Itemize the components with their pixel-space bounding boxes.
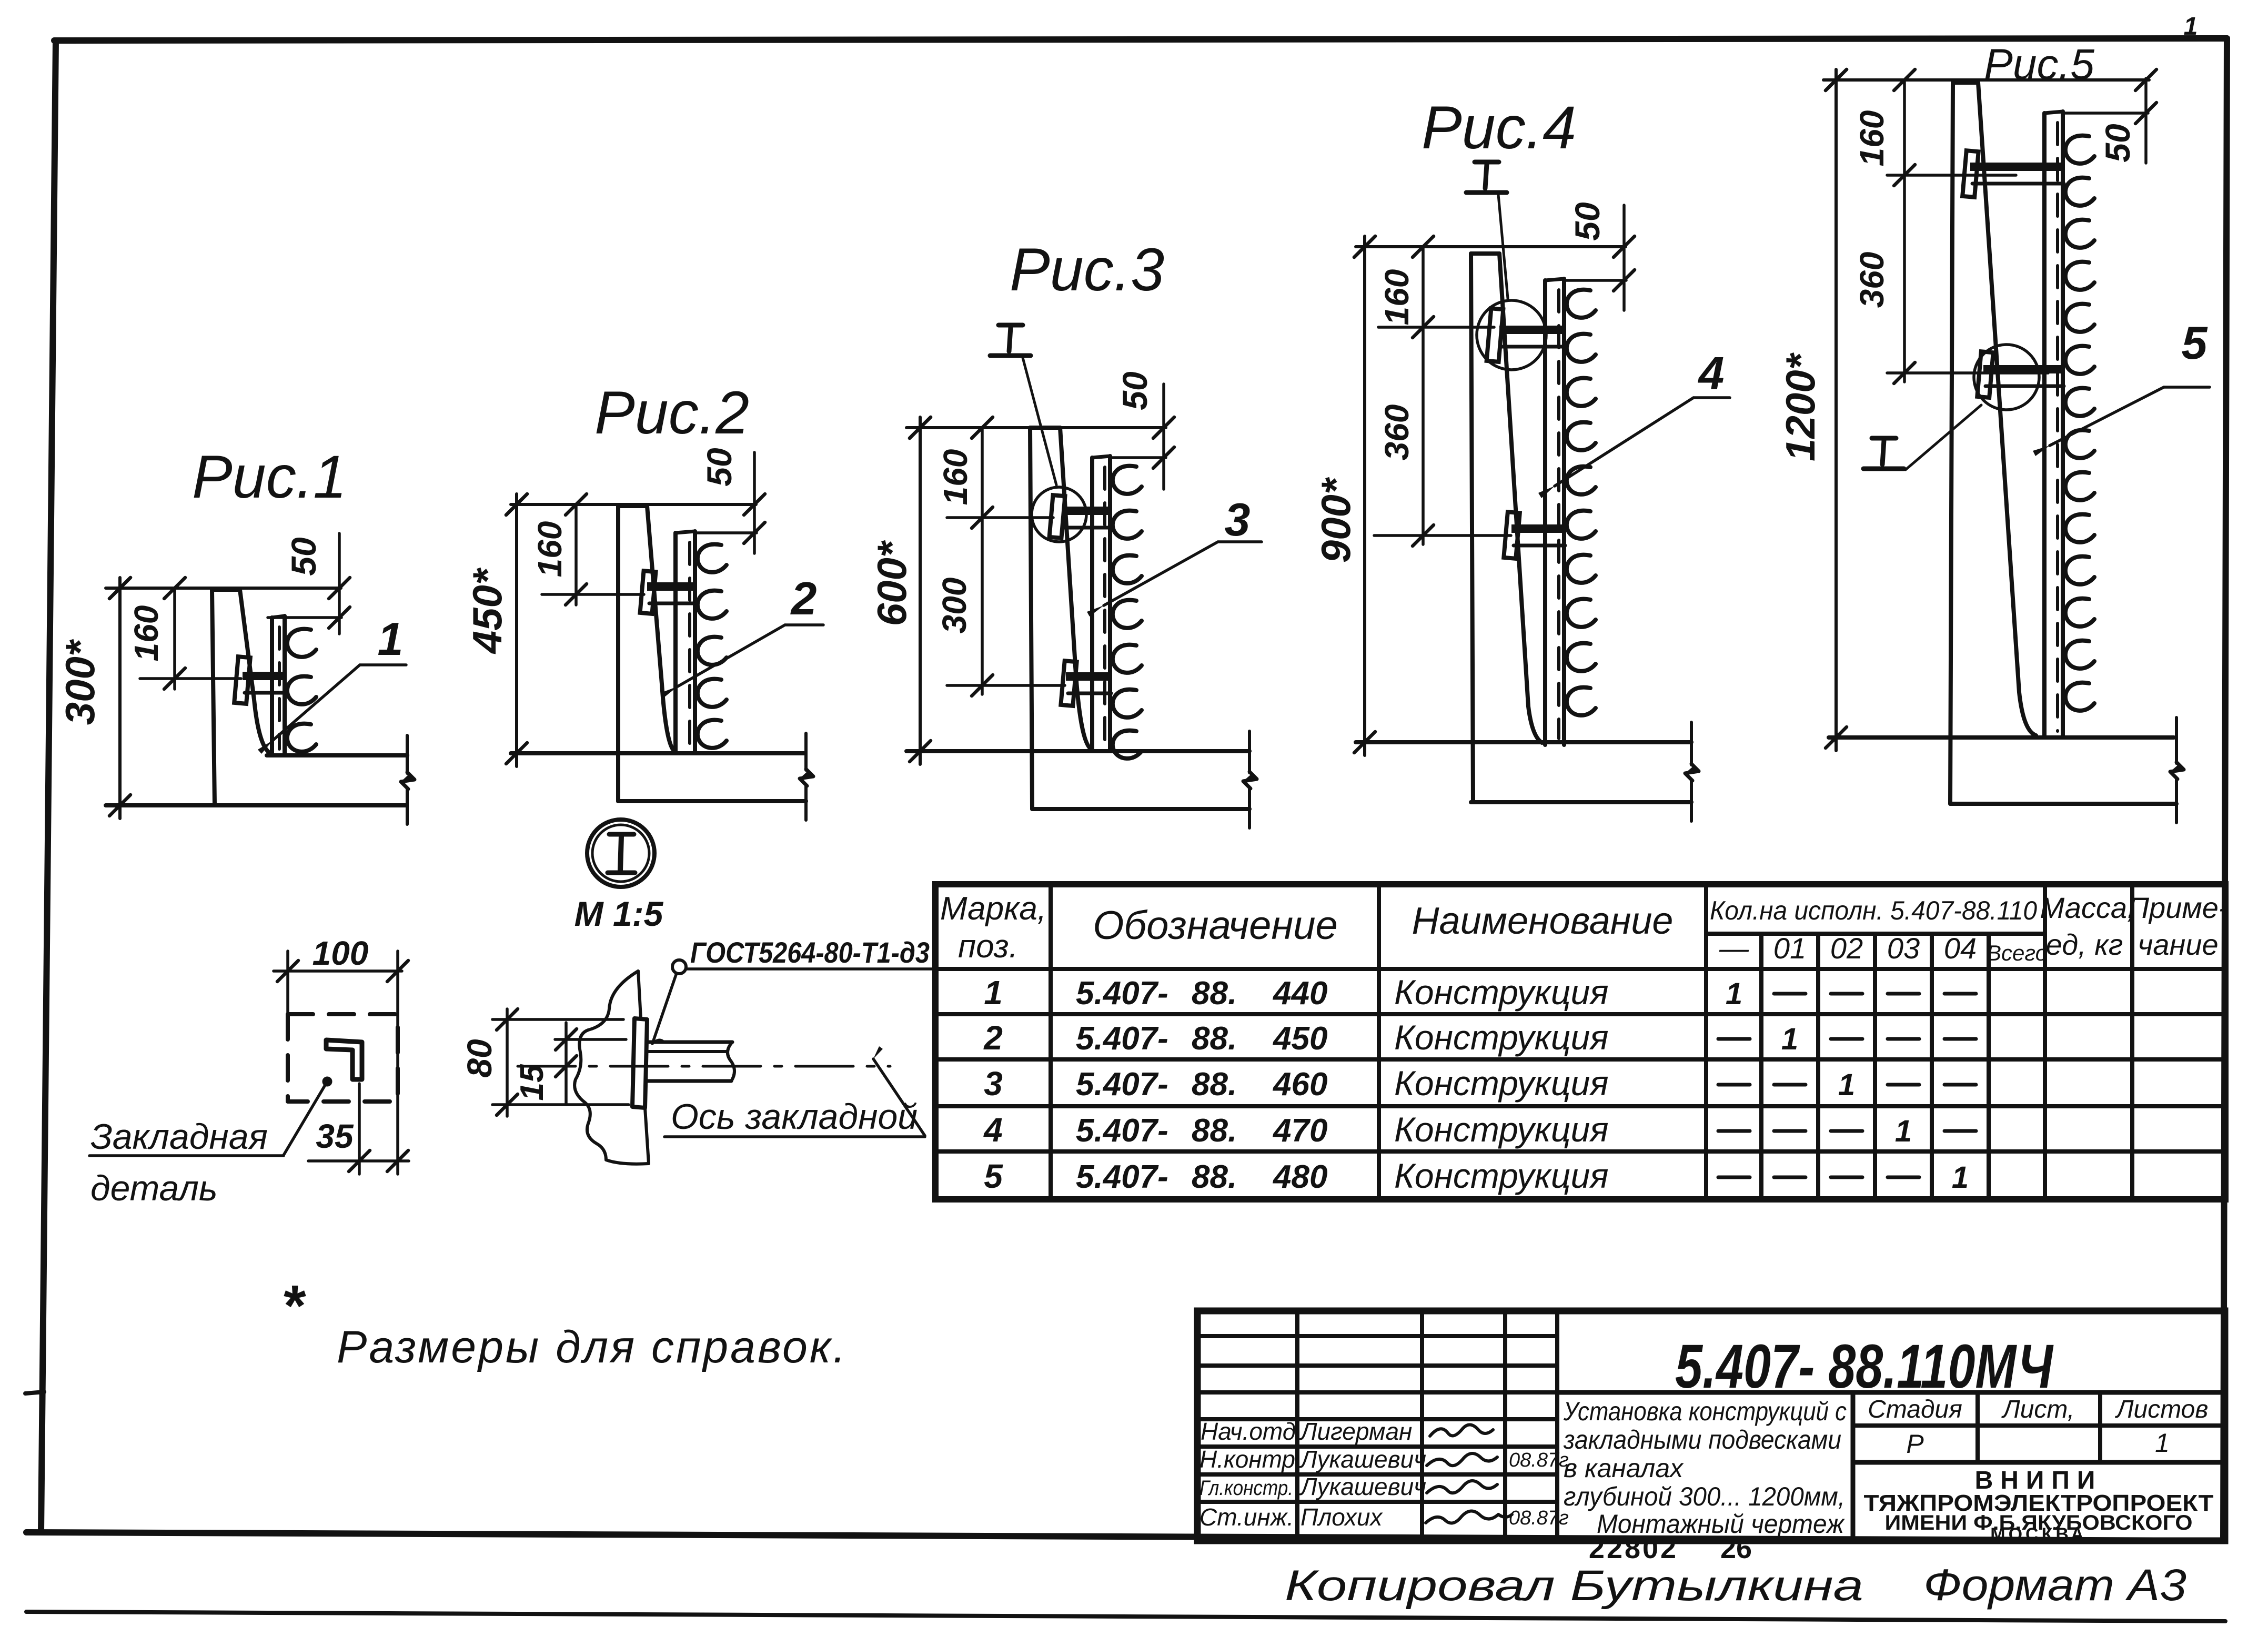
svg-text:04: 04 xyxy=(1944,932,1977,965)
svg-text:440: 440 xyxy=(1272,975,1327,1012)
dim text 15 xyxy=(514,1064,550,1100)
fig3 break mark xyxy=(1243,731,1257,828)
fig4 channel floor line xyxy=(1356,740,1691,744)
fig2 floor slab bottom line xyxy=(618,799,806,803)
fig5 position number 5 xyxy=(2182,317,2208,369)
axis centerline Ось закладной xyxy=(518,1046,925,1136)
fig3 embedded bracket 1 xyxy=(1050,495,1112,538)
fig3 floor slab bottom line xyxy=(1032,807,1249,811)
svg-text:5.407-: 5.407- xyxy=(1076,1159,1168,1195)
reference note asterisk xyxy=(281,1274,307,1338)
svg-text:300: 300 xyxy=(935,578,973,634)
fig4 section mark leader xyxy=(1498,195,1508,298)
reference note Размеры для справок. xyxy=(337,1322,848,1372)
stage values xyxy=(1906,1428,2170,1459)
title block roles xyxy=(1199,1418,1302,1531)
svg-text:88.: 88. xyxy=(1192,1066,1237,1103)
dim text 35 xyxy=(316,1117,354,1155)
svg-text:5.407-: 5.407- xyxy=(1076,1113,1168,1149)
svg-text:5.407- 88.110МЧ: 5.407- 88.110МЧ xyxy=(1675,1332,2054,1401)
svg-text:5.407-: 5.407- xyxy=(1076,975,1168,1012)
svg-text:—: — xyxy=(1719,932,1749,965)
svg-text:Всего: Всего xyxy=(1987,941,2048,965)
svg-text:50: 50 xyxy=(700,448,739,487)
fig1 dim text 160 xyxy=(127,605,165,662)
fig1 floor slab bottom line xyxy=(106,803,406,807)
svg-text:Нач.отд: Нач.отд xyxy=(1201,1418,1296,1445)
svg-text:08.87г: 08.87г xyxy=(1509,1449,1569,1471)
svg-text:1: 1 xyxy=(1781,1022,1798,1056)
svg-text:Рис.1: Рис.1 xyxy=(192,443,347,511)
fig5 embedded bracket 1 xyxy=(1962,150,2065,197)
leader to angle xyxy=(89,1078,331,1156)
svg-text:1: 1 xyxy=(2155,1428,2170,1458)
svg-text:15: 15 xyxy=(514,1064,550,1100)
svg-text:Н.контр.: Н.контр. xyxy=(1199,1446,1302,1473)
svg-text:1200*: 1200* xyxy=(1777,352,1823,461)
fig5 break mark xyxy=(2170,718,2184,823)
svg-text:ГОСТ5264-80-Т1-д3: ГОСТ5264-80-Т1-д3 xyxy=(690,936,930,969)
svg-text:88.: 88. xyxy=(1192,975,1237,1012)
fig1 cable hooks xyxy=(287,629,316,752)
svg-text:Установка конструкций с: Установка конструкций с xyxy=(1563,1397,1847,1426)
svg-text:88.: 88. xyxy=(1192,1159,1237,1195)
table header Масса ед кг xyxy=(2040,891,2135,961)
fig1 overall depth dimension line xyxy=(109,578,130,819)
svg-text:50: 50 xyxy=(1115,371,1154,410)
svg-text:3: 3 xyxy=(984,1065,1003,1103)
table header Кол. на исполн. xyxy=(1710,896,2037,925)
svg-text:1: 1 xyxy=(1895,1114,1912,1148)
svg-text:МОСКВА: МОСКВА xyxy=(1990,1524,2087,1544)
fig4 channel wall xyxy=(1471,254,1542,802)
svg-text:Масса,: Масса, xyxy=(2040,891,2135,924)
fig4 embedded bracket 2 xyxy=(1504,512,1566,559)
weld designation ГОСТ5264-80-Т1-д3 xyxy=(652,936,935,1044)
svg-text:5.407-: 5.407- xyxy=(1076,1020,1168,1057)
fig1 position number 1 xyxy=(378,613,404,665)
svg-text:5: 5 xyxy=(2182,317,2208,369)
svg-text:5.407-: 5.407- xyxy=(1076,1066,1168,1103)
table row 1 Конструкция 5.407-88.440 xyxy=(984,973,1976,1012)
svg-text:Лист,: Лист, xyxy=(2001,1396,2074,1423)
fig4 dim text 360 xyxy=(1378,405,1416,461)
svg-text:Марка,: Марка, xyxy=(940,891,1046,927)
svg-text:4: 4 xyxy=(983,1111,1003,1149)
table header Наименование xyxy=(1412,900,1674,942)
svg-text:360: 360 xyxy=(1378,405,1416,461)
svg-text:Конструкция: Конструкция xyxy=(1394,1064,1609,1103)
dim line 35 xyxy=(308,1084,409,1174)
table header Обозначение xyxy=(1093,903,1338,948)
fig4 dim text 50 xyxy=(1568,202,1607,241)
fig4 section mark I xyxy=(1466,162,1507,193)
fig3 dim text 50 xyxy=(1115,371,1154,410)
fig3 section mark leader xyxy=(1023,358,1056,485)
svg-text:Ст.инж.: Ст.инж. xyxy=(1199,1503,1294,1531)
svg-text:закладными подвесками: закладными подвесками xyxy=(1563,1425,1841,1454)
svg-text:160: 160 xyxy=(936,449,974,506)
fig4 dim text 900* xyxy=(1313,477,1359,563)
fig5 dim text 50 xyxy=(2098,124,2137,163)
table header Марка поз. xyxy=(940,891,1046,965)
table row 4 Конструкция 5.407-88.470 xyxy=(983,1110,1976,1149)
svg-text:300*: 300* xyxy=(57,639,103,725)
fig3 section mark I xyxy=(990,325,1031,356)
fig2 bracket spacing dimension lines xyxy=(542,504,644,605)
fig5 detail circle xyxy=(1974,345,2039,410)
fig4 top dimension line xyxy=(1354,236,1626,257)
fig4 bracket spacing dimension lines xyxy=(1374,247,1511,546)
fig1 break mark xyxy=(401,735,415,824)
svg-text:Рис.4: Рис.4 xyxy=(1422,94,1576,161)
svg-text:470: 470 xyxy=(1272,1113,1327,1149)
fig4 dim line 50 xyxy=(1564,205,1635,310)
parts table grid xyxy=(935,884,2225,1199)
fig1 cable-rack post xyxy=(272,616,285,755)
fig1 caption Рис.1 xyxy=(192,443,347,511)
fig5 dim text 360 xyxy=(1853,252,1891,308)
fig1 dim text 50 xyxy=(284,537,323,576)
fig1 embedded bracket 1 xyxy=(234,656,287,704)
title block names xyxy=(1299,1418,1426,1531)
svg-text:Плохих: Плохих xyxy=(1301,1503,1383,1531)
fig5 cable hooks xyxy=(2065,136,2094,711)
fig3 dim text 160 xyxy=(936,449,974,506)
organization ВНИПИ xyxy=(1864,1467,2214,1544)
fig1 bracket spacing dimension lines xyxy=(140,588,241,689)
fig4 detail circle xyxy=(1477,300,1546,370)
fig5 dim text 1200* xyxy=(1777,352,1823,461)
fig2 cable hooks xyxy=(698,544,727,748)
svg-text:Формат А3: Формат А3 xyxy=(1923,1560,2186,1610)
fig4 break mark xyxy=(1685,722,1699,821)
fold mark left edge xyxy=(25,1392,44,1393)
svg-text:1: 1 xyxy=(1952,1160,1969,1195)
fig4 cable hooks xyxy=(1567,290,1596,715)
svg-text:1: 1 xyxy=(378,613,404,665)
svg-text:Размеры для справок.: Размеры для справок. xyxy=(337,1322,848,1372)
fig3 detail circle xyxy=(1032,487,1086,542)
fig5 cable-rack post xyxy=(2044,112,2063,737)
fig1 leader line pos.1 xyxy=(258,665,406,754)
svg-text:Наименование: Наименование xyxy=(1412,900,1674,942)
scale label М 1:5 xyxy=(574,894,664,933)
fig3 overall depth dimension line xyxy=(910,417,931,764)
table row 5 Конструкция 5.407-88.480 xyxy=(984,1156,1969,1195)
svg-text:Конструкция: Конструкция xyxy=(1394,1018,1609,1057)
svg-text:1: 1 xyxy=(1838,1068,1855,1102)
stage table headers xyxy=(1868,1396,2208,1423)
fig2 dim text 450* xyxy=(464,567,510,654)
fig5 overall depth dimension line xyxy=(1826,69,1847,751)
fig3 leader line pos.3 xyxy=(1087,542,1262,617)
svg-text:Копировал Бутылкина: Копировал Бутылкина xyxy=(1285,1562,1863,1610)
anchor angle section xyxy=(326,1040,362,1079)
fig2 embedded bracket 1 xyxy=(640,571,697,614)
label Закладная деталь xyxy=(90,1117,268,1208)
fig2 channel wall xyxy=(618,506,674,801)
fig3 cable-rack post xyxy=(1092,456,1110,751)
table subheaders 01-04 Всего xyxy=(1719,932,2048,965)
fig5 channel wall xyxy=(1950,83,2036,804)
fig2 cable-rack post xyxy=(676,531,695,753)
svg-text:Конструкция: Конструкция xyxy=(1394,1110,1609,1149)
fig4 caption Рис.4 xyxy=(1422,94,1576,161)
fig5 leader line pos.5 xyxy=(2033,387,2210,456)
svg-text:1: 1 xyxy=(1726,977,1742,1011)
fig1 top dimension line xyxy=(106,578,341,599)
svg-text:160: 160 xyxy=(1378,269,1416,326)
fig3 dim text 300 xyxy=(935,578,973,634)
fig5 bracket spacing dimension lines xyxy=(1887,80,2048,383)
fig5 caption Рис.5 xyxy=(1984,41,2094,88)
table header Примечание xyxy=(2128,891,2228,961)
dim line 15 xyxy=(555,1023,626,1105)
svg-text:08.87г: 08.87г xyxy=(1509,1507,1569,1529)
fig3 dim line 50 xyxy=(1112,384,1174,489)
fig3 dim text 600* xyxy=(869,540,915,626)
fig4 position number 4 xyxy=(1698,347,1725,399)
fig2 dim text 50 xyxy=(700,448,739,487)
fig1 channel wall xyxy=(212,590,270,805)
svg-text:360: 360 xyxy=(1853,252,1891,308)
fig2 break mark xyxy=(800,733,813,820)
svg-text:900*: 900* xyxy=(1313,477,1359,563)
svg-text:480: 480 xyxy=(1272,1159,1327,1195)
fig4 floor slab bottom line xyxy=(1471,800,1691,804)
fig3 position number 3 xyxy=(1225,493,1251,545)
fig2 leader line pos.2 xyxy=(661,625,823,698)
svg-text:5: 5 xyxy=(984,1157,1003,1195)
table row 3 Конструкция 5.407-88.460 xyxy=(984,1064,1976,1103)
fig3 channel wall xyxy=(1030,428,1091,809)
svg-text:Обозначение: Обозначение xyxy=(1093,903,1338,948)
svg-text:1: 1 xyxy=(984,974,1003,1012)
svg-text:Лигерман: Лигерман xyxy=(1299,1418,1412,1445)
svg-text:2: 2 xyxy=(790,572,817,624)
fig3 embedded bracket 2 xyxy=(1061,661,1112,706)
svg-text:1: 1 xyxy=(2184,13,2198,41)
svg-text:160: 160 xyxy=(531,521,569,578)
fig5 dim text 160 xyxy=(1853,110,1891,167)
dim text 80 xyxy=(460,1039,499,1078)
fig2 overall depth dimension line xyxy=(506,494,527,766)
svg-text:Стадия: Стадия xyxy=(1868,1396,1962,1423)
concrete break outline xyxy=(574,971,649,1164)
svg-text:глубиной 300... 1200мм,: глубиной 300... 1200мм, xyxy=(1564,1482,1845,1511)
label Копировал Бутылкина xyxy=(1285,1562,1863,1610)
section symbol circle I below fig2 xyxy=(587,820,654,887)
svg-text:Р: Р xyxy=(1906,1429,1924,1459)
svg-text:460: 460 xyxy=(1272,1066,1327,1103)
svg-text:поз.: поз. xyxy=(958,928,1018,965)
svg-text:Приме-: Приме- xyxy=(2128,891,2228,924)
anchor rod xyxy=(647,1042,734,1081)
svg-text:50: 50 xyxy=(2098,124,2137,163)
fig3 cable hooks xyxy=(1113,466,1142,759)
svg-text:50: 50 xyxy=(1568,202,1607,241)
fig3 channel floor line xyxy=(906,749,1249,753)
svg-text:03: 03 xyxy=(1887,932,1920,965)
svg-text:26: 26 xyxy=(1720,1533,1752,1564)
fig1 dim text 300* xyxy=(57,639,103,725)
fig4 dim text 160 xyxy=(1378,269,1416,326)
svg-text:Кол.на исполн. 5.407-88.110: Кол.на исполн. 5.407-88.110 xyxy=(1710,896,2037,925)
title text Установка конструкций xyxy=(1563,1397,1847,1539)
svg-text:ед, кг: ед, кг xyxy=(2046,928,2123,961)
print code 22802 26 xyxy=(1589,1533,1752,1564)
svg-text:Лукашевич: Лукашевич xyxy=(1299,1473,1426,1500)
svg-text:450*: 450* xyxy=(464,567,510,654)
embedded plate dashed outline xyxy=(288,1014,398,1102)
svg-text:88.: 88. xyxy=(1192,1020,1237,1057)
svg-text:М 1:5: М 1:5 xyxy=(574,894,664,933)
fig1 channel floor line xyxy=(267,753,407,757)
fig2 dim line 50 xyxy=(695,452,765,553)
svg-text:2: 2 xyxy=(983,1019,1003,1057)
svg-text:Конструкция: Конструкция xyxy=(1394,973,1609,1012)
svg-text:Закладная: Закладная xyxy=(90,1117,268,1157)
fig2 position number 2 xyxy=(790,572,817,624)
dim text 100 xyxy=(313,934,369,972)
svg-text:Листов: Листов xyxy=(2115,1396,2209,1423)
fig2 channel floor line xyxy=(511,751,804,755)
fig2 top dimension line xyxy=(506,494,756,515)
document number 5.407-88.110МЧ xyxy=(1675,1332,2054,1401)
label Формат А3 xyxy=(1923,1560,2186,1610)
signature squiggles xyxy=(1426,1424,1512,1523)
svg-text:деталь: деталь xyxy=(90,1168,218,1208)
fig4 overall depth dimension line xyxy=(1354,236,1375,755)
fig5 floor slab bottom line xyxy=(1950,802,2176,806)
sheet number 1 top right xyxy=(2184,13,2198,41)
svg-text:50: 50 xyxy=(284,537,323,576)
fig2 caption Рис.2 xyxy=(594,379,749,447)
svg-text:100: 100 xyxy=(313,934,369,972)
svg-text:в каналах: в каналах xyxy=(1564,1453,1684,1483)
fig2 dim text 160 xyxy=(531,521,569,578)
fig1 dim line 50 xyxy=(268,533,350,634)
fig5 section mark leader xyxy=(1906,405,1981,470)
svg-text:чание: чание xyxy=(2138,928,2218,961)
svg-text:600*: 600* xyxy=(869,540,915,626)
svg-text:22802: 22802 xyxy=(1589,1533,1678,1564)
fig5 section mark I xyxy=(1863,438,1904,469)
signature dates xyxy=(1509,1449,1569,1529)
svg-text:Конструкция: Конструкция xyxy=(1394,1156,1609,1195)
fig3 bracket spacing dimension lines xyxy=(947,428,1065,696)
embedded plate section xyxy=(632,971,649,1164)
svg-text:450: 450 xyxy=(1272,1020,1327,1057)
fig3 caption Рис.3 xyxy=(1010,236,1164,304)
fig4 leader line pos.4 xyxy=(1538,398,1730,498)
svg-text:Рис.3: Рис.3 xyxy=(1010,236,1164,304)
fig3 top dimension line xyxy=(906,417,1166,438)
fig5 embedded bracket 2 xyxy=(1977,351,2065,398)
svg-text:*: * xyxy=(281,1274,307,1338)
table row 2 Конструкция 5.407-88.450 xyxy=(983,1018,1976,1057)
svg-text:160: 160 xyxy=(1853,110,1891,167)
title block grid xyxy=(1197,1311,2225,1541)
dim line 80 xyxy=(492,1009,629,1116)
svg-text:Лукашевич: Лукашевич xyxy=(1299,1446,1426,1473)
svg-text:3: 3 xyxy=(1225,493,1251,545)
svg-text:02: 02 xyxy=(1830,932,1863,965)
svg-text:Гл.констр.: Гл.констр. xyxy=(1199,1477,1293,1500)
fig5 top dimension line xyxy=(1823,69,2149,90)
svg-text:88.: 88. xyxy=(1192,1113,1237,1149)
svg-text:Ось закладной: Ось закладной xyxy=(671,1097,918,1137)
fig4 cable-rack post xyxy=(1545,279,1564,745)
bottom rule xyxy=(26,1612,2225,1621)
fig4 embedded bracket 1 xyxy=(1487,308,1566,362)
svg-text:Рис.2: Рис.2 xyxy=(594,379,749,447)
fig5 dim line 50 xyxy=(2062,69,2156,163)
svg-text:4: 4 xyxy=(1698,347,1725,399)
dim line 100 xyxy=(274,951,408,1174)
svg-text:160: 160 xyxy=(127,605,165,662)
label Ось закладной xyxy=(664,1097,925,1137)
svg-text:80: 80 xyxy=(460,1039,499,1078)
svg-text:01: 01 xyxy=(1773,932,1806,965)
fig5 channel floor line xyxy=(1829,735,2174,740)
svg-text:35: 35 xyxy=(316,1117,354,1155)
